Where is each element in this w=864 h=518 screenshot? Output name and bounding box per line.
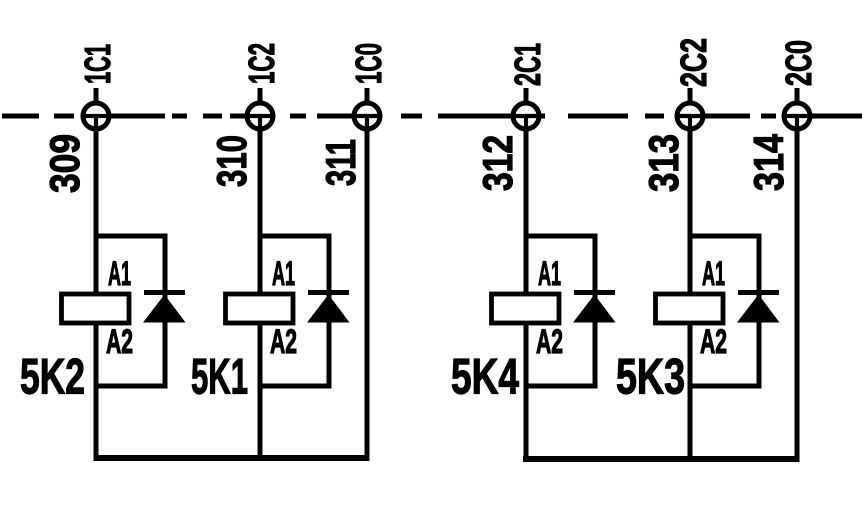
svg-text:5K1: 5K1 xyxy=(191,349,248,405)
svg-text:312: 312 xyxy=(474,135,521,191)
flyback diode of 5K1 (cathode bar) xyxy=(308,290,349,295)
coil of relay 5K3 xyxy=(656,294,724,323)
svg-text:1C1: 1C1 xyxy=(77,44,118,84)
wire 314 from terminal 2C0 to bottom bus xyxy=(795,129,800,461)
wire: bottom branch of 5K1 diode loop xyxy=(258,384,332,389)
wire 313 from terminal 2C2 to coil A1 xyxy=(688,129,693,297)
svg-text:A1: A1 xyxy=(702,255,725,293)
svg-text:A1: A1 xyxy=(538,255,561,293)
svg-text:5K3: 5K3 xyxy=(616,349,685,405)
terminal 1C0 (circle) xyxy=(354,103,380,131)
svg-text:2C1: 2C1 xyxy=(507,43,548,86)
svg-text:5K2: 5K2 xyxy=(20,349,85,405)
terminal 2C2 top stub wire xyxy=(688,88,693,104)
wire: top branch of 5K3 diode loop xyxy=(688,234,762,239)
svg-text:310: 310 xyxy=(208,135,255,187)
terminal 2C0 (circle) xyxy=(784,103,810,131)
svg-text:A1: A1 xyxy=(272,255,295,293)
flyback diode of 5K1 (triangle, anode up arrow) xyxy=(307,295,350,323)
relay 5K3 coil + flyback diode group xyxy=(616,234,780,405)
svg-text:A2: A2 xyxy=(536,323,563,361)
flyback diode of 5K4 (triangle, anode up arrow) xyxy=(573,295,616,323)
wire from coil A2 down to bottom bus xyxy=(258,320,263,461)
flyback diode of 5K2 (triangle, anode up arrow) xyxy=(143,295,186,323)
wire 311 from terminal 1C0 to bottom bus xyxy=(365,129,370,461)
wire: top branch of 5K2 diode loop xyxy=(94,234,168,239)
terminal 2C1 (circle) xyxy=(513,103,539,131)
svg-text:1C2: 1C2 xyxy=(241,43,282,84)
svg-text:314: 314 xyxy=(745,133,792,191)
wire from coil A2 down to bottom bus xyxy=(688,320,693,461)
relay 5K4 coil + flyback diode group xyxy=(451,234,616,405)
wire 310 from terminal 1C2 to coil A1 xyxy=(258,129,263,297)
wire: right branch (diode branch) of 5K3 xyxy=(757,234,762,389)
relay 5K1 coil + flyback diode group xyxy=(191,234,350,405)
wire from coil A2 down to bottom bus xyxy=(94,320,99,461)
wire from coil A2 down to bottom bus xyxy=(524,320,529,461)
svg-text:2C2: 2C2 xyxy=(673,38,714,87)
bottom common bus wire (1C0 group: 5K2, 5K1, 311) xyxy=(94,455,370,461)
svg-text:2C0: 2C0 xyxy=(778,40,819,86)
wire: right branch (diode branch) of 5K4 xyxy=(593,234,598,389)
flyback diode of 5K4 (cathode bar) xyxy=(574,290,615,295)
terminal 2C2 (circle) xyxy=(677,103,703,131)
terminal 2C0 top stub wire xyxy=(795,88,800,104)
wire: bottom branch of 5K2 diode loop xyxy=(94,384,168,389)
svg-text:5K4: 5K4 xyxy=(451,349,519,405)
flyback diode of 5K3 (triangle, anode up arrow) xyxy=(737,295,780,323)
terminal 1C1 top stub wire xyxy=(94,88,99,104)
svg-text:A2: A2 xyxy=(106,323,133,361)
wire: top branch of 5K4 diode loop xyxy=(524,234,598,239)
svg-text:A2: A2 xyxy=(270,323,297,361)
wire: bottom branch of 5K3 diode loop xyxy=(688,384,762,389)
svg-text:311: 311 xyxy=(317,139,364,186)
svg-text:A1: A1 xyxy=(108,255,131,293)
coil of relay 5K4 xyxy=(492,294,560,323)
terminal 1C2 top stub wire xyxy=(258,88,263,104)
flyback diode of 5K3 (cathode bar) xyxy=(738,290,779,295)
bottom common bus wire (2C0 group: 5K4, 5K3, 314) xyxy=(523,456,800,462)
wire: right branch (diode branch) of 5K2 xyxy=(163,234,168,389)
control bus (dashed horizontal line) xyxy=(2,114,862,119)
terminal 2C1 top stub wire xyxy=(524,88,529,104)
coil of relay 5K2 xyxy=(62,294,130,323)
terminal 1C2 (circle) xyxy=(247,103,273,131)
relay 5K2 coil + flyback diode group xyxy=(20,234,186,405)
svg-text:313: 313 xyxy=(640,134,687,192)
flyback diode of 5K2 (cathode bar) xyxy=(144,290,185,295)
wire: right branch (diode branch) of 5K1 xyxy=(327,234,332,389)
svg-text:309: 309 xyxy=(41,134,88,193)
terminal 1C1 (circle) xyxy=(83,103,109,131)
coil of relay 5K1 xyxy=(226,294,294,323)
wire 309 from terminal 1C1 to coil A1 xyxy=(94,129,99,297)
wire: top branch of 5K1 diode loop xyxy=(258,234,332,239)
terminal 1C0 top stub wire xyxy=(365,88,370,104)
wire 312 from terminal 2C1 to coil A1 xyxy=(524,129,529,297)
svg-text:1C0: 1C0 xyxy=(348,43,389,84)
svg-text:A2: A2 xyxy=(700,323,727,361)
wire: bottom branch of 5K4 diode loop xyxy=(524,384,598,389)
